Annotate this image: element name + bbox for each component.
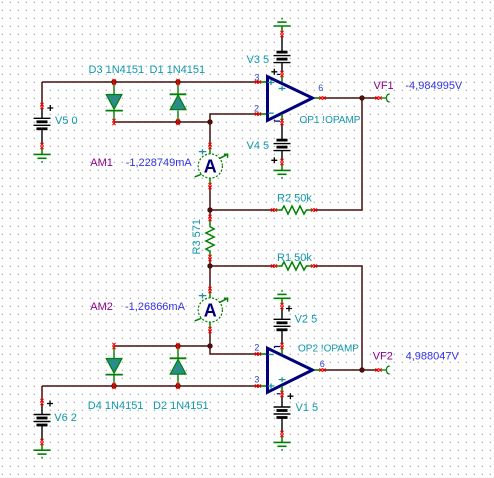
svg-text:AM1: AM1 bbox=[90, 157, 113, 169]
svg-text:-4,984995V: -4,984995V bbox=[405, 80, 463, 92]
svg-text:R3 571: R3 571 bbox=[191, 219, 203, 254]
svg-text:D2 1N4151: D2 1N4151 bbox=[153, 400, 209, 412]
svg-text:3: 3 bbox=[254, 374, 259, 384]
svg-text:A: A bbox=[204, 300, 217, 320]
svg-text:D1 1N4151: D1 1N4151 bbox=[150, 64, 206, 76]
svg-text:4,988047V: 4,988047V bbox=[406, 350, 460, 362]
svg-text:V3 5: V3 5 bbox=[247, 54, 270, 66]
svg-text:V5 0: V5 0 bbox=[55, 115, 78, 127]
svg-text:VF1: VF1 bbox=[374, 80, 394, 92]
svg-text:D4 1N4151: D4 1N4151 bbox=[88, 400, 144, 412]
svg-text:V4 5: V4 5 bbox=[247, 140, 270, 152]
svg-text:VF2: VF2 bbox=[373, 350, 393, 362]
svg-text:V6 2: V6 2 bbox=[54, 412, 77, 424]
svg-text:V2 5: V2 5 bbox=[295, 314, 318, 326]
svg-text:6: 6 bbox=[318, 83, 323, 93]
svg-text:AM2: AM2 bbox=[90, 301, 113, 313]
svg-text:6: 6 bbox=[320, 359, 325, 369]
svg-text:-1,26866mA: -1,26866mA bbox=[125, 301, 186, 313]
svg-text:3: 3 bbox=[254, 73, 259, 83]
svg-text:2: 2 bbox=[254, 343, 259, 353]
svg-text:D3 1N4151: D3 1N4151 bbox=[89, 64, 145, 76]
svg-text:A: A bbox=[204, 156, 217, 176]
svg-text:R2 50k: R2 50k bbox=[277, 192, 312, 204]
svg-text:V1 5: V1 5 bbox=[296, 402, 319, 414]
svg-text:2: 2 bbox=[254, 104, 259, 114]
svg-text:OP2 !OPAMP: OP2 !OPAMP bbox=[298, 344, 359, 355]
svg-text:-1,228749mA: -1,228749mA bbox=[126, 157, 193, 169]
svg-text:OP1 !OPAMP: OP1 !OPAMP bbox=[300, 115, 361, 126]
svg-text:R1 50k: R1 50k bbox=[277, 252, 312, 264]
